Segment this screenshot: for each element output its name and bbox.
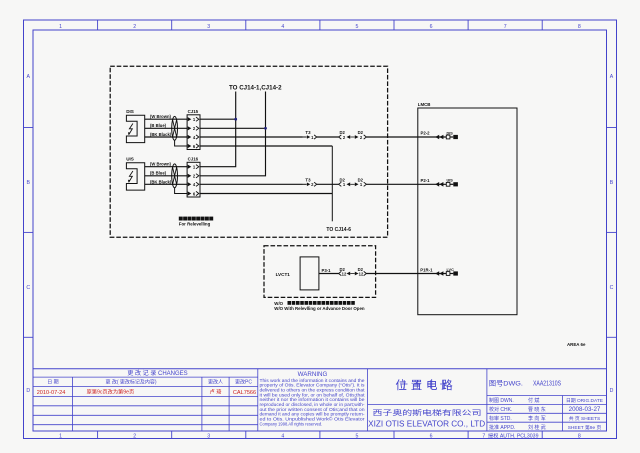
UIS wires (145, 166, 187, 168)
connector pair (339, 182, 342, 186)
svg-text:P1R-1: P1R-1 (420, 268, 433, 273)
svg-text:原第9c页改为第9e页: 原第9c页改为第9e页 (87, 388, 135, 396)
svg-text:2: 2 (133, 24, 136, 30)
lower dashed enclosure (LVCT) (264, 246, 376, 298)
svg-text:7: 7 (482, 433, 485, 439)
border frame inner (33, 30, 607, 431)
svg-text:CJ15: CJ15 (188, 109, 199, 114)
svg-text:(W Brown): (W Brown) (150, 161, 172, 166)
svg-text:12: 12 (359, 271, 364, 276)
svg-text:WARNING: WARNING (298, 371, 328, 378)
svg-text:C: C (610, 285, 614, 291)
svg-text:B: B (610, 180, 614, 186)
svg-text:7: 7 (504, 24, 507, 30)
wire to P2-2 (366, 136, 446, 138)
wire to P1R-1 (366, 273, 446, 275)
svg-text:XIZI OTIS ELEVATOR CO., LTD: XIZI OTIS ELEVATOR CO., LTD (368, 420, 485, 429)
svg-text:(B Blue): (B Blue) (150, 171, 167, 176)
changes table lines (33, 376, 258, 378)
svg-text:CJ16: CJ16 (188, 157, 199, 162)
svg-text:P2-1: P2-1 (421, 178, 431, 183)
junction dot A (234, 118, 237, 121)
svg-text:AREA 6e: AREA 6e (567, 342, 586, 347)
svg-text:8: 8 (578, 24, 581, 30)
svg-text:6: 6 (430, 433, 433, 439)
svg-text:2010-07-24: 2010-07-24 (37, 390, 66, 396)
svg-text:(B Blue): (B Blue) (150, 123, 167, 128)
svg-text:西子奥的斯电梯有限公司: 西子奥的斯电梯有限公司 (373, 408, 482, 417)
svg-text:6: 6 (430, 24, 433, 30)
svg-text:3: 3 (207, 433, 210, 439)
svg-text:(W Brown): (W Brown) (150, 114, 172, 119)
svg-text:UIS: UIS (126, 157, 134, 162)
board entry arrows (435, 135, 439, 140)
CJ15 pin wires (200, 118, 236, 120)
svg-text:A: A (26, 74, 30, 80)
connector pair (339, 135, 342, 139)
UIS shield wire (175, 188, 188, 194)
main dashed enclosure (110, 66, 387, 237)
junction dot B (264, 127, 267, 130)
svg-text:校对 CHK.: 校对 CHK. (489, 406, 512, 413)
svg-text:12: 12 (342, 271, 347, 276)
svg-text:D: D (610, 388, 614, 394)
ruler ticks (97, 20, 99, 30)
svg-text:LMCB: LMCB (418, 102, 431, 107)
svg-text:更改PC: 更改PC (235, 379, 252, 386)
DIS shield wire (175, 140, 188, 146)
svg-text:D: D (26, 388, 30, 394)
svg-text:卢 琦: 卢 琦 (210, 388, 222, 396)
svg-text:2008-03-27: 2008-03-27 (569, 406, 601, 413)
svg-text:4: 4 (281, 24, 284, 30)
svg-text:更改人: 更改人 (208, 379, 223, 386)
svg-text:(BK Black): (BK Black) (150, 132, 172, 137)
svg-text:共 页 SHEETS: 共 页 SHEETS (569, 415, 600, 422)
svg-text:5: 5 (356, 433, 359, 439)
svg-text:CAL7566: CAL7566 (233, 390, 256, 396)
svg-text:For Relevelling: For Relevelling (179, 222, 211, 227)
svg-text:4: 4 (281, 433, 284, 439)
svg-text:SHEET 第9e 页: SHEET 第9e 页 (568, 424, 602, 431)
svg-text:B: B (26, 180, 30, 186)
plug pin (303, 136, 307, 138)
svg-text:1: 1 (59, 433, 62, 439)
drawing title cell (368, 404, 487, 406)
svg-text:标审 STD.: 标审 STD. (489, 415, 512, 422)
node CJ14-6 drop wire (331, 146, 333, 221)
warning box (367, 369, 369, 431)
svg-text:XAA21310S: XAA21310S (533, 380, 561, 387)
title block top line (33, 368, 607, 370)
svg-text:日 期: 日 期 (47, 380, 58, 386)
approval table (487, 395, 607, 397)
svg-text:P3-1: P3-1 (322, 268, 332, 273)
svg-text:制图 DWN.: 制图 DWN. (489, 397, 514, 404)
plug pin (303, 183, 307, 185)
svg-text:A: A (610, 74, 614, 80)
svg-text:W/O With Relevlling or Advance: W/O With Relevlling or Advance Door Open (274, 306, 365, 311)
shielded cable symbol (172, 164, 178, 188)
svg-text:TO CJ14-1,CJ14-2: TO CJ14-1,CJ14-2 (229, 85, 282, 92)
svg-text:更 改 记 录 CHANGES: 更 改 记 录 CHANGES (127, 369, 187, 377)
svg-text:C: C (26, 285, 30, 291)
shielded cable symbol (172, 116, 178, 140)
svg-text:刘 桂 武: 刘 桂 武 (528, 424, 546, 431)
svg-text:DIS: DIS (126, 109, 134, 114)
svg-text:LVCT1: LVCT1 (276, 272, 291, 277)
svg-text:P2-2: P2-2 (421, 131, 431, 136)
node CJ14-2 riser (200, 92, 266, 176)
connector pair (339, 271, 342, 275)
svg-text:TO CJ14-6: TO CJ14-6 (326, 227, 351, 233)
board entry arrows (435, 271, 439, 276)
svg-text:Company 1998.All rights reserv: Company 1998.All rights reserved. (260, 421, 323, 426)
CJ16 pin wires (200, 183, 303, 185)
svg-text:授权 AUTH. PCL3039: 授权 AUTH. PCL3039 (488, 431, 539, 439)
note for relevelling (179, 217, 183, 221)
DIS wires (145, 118, 187, 120)
svg-text:付 斌: 付 斌 (528, 397, 539, 404)
svg-text:批准 APPD.: 批准 APPD. (489, 424, 515, 431)
node CJ14-1 riser (200, 92, 236, 167)
svg-text:(BK Black): (BK Black) (150, 179, 172, 184)
svg-text:3: 3 (207, 24, 210, 30)
svg-text:W/O: W/O (274, 301, 283, 306)
svg-text:8: 8 (578, 433, 581, 439)
board entry arrows (435, 182, 439, 187)
svg-text:1: 1 (59, 24, 62, 30)
svg-text:5: 5 (356, 24, 359, 30)
svg-text:李 向 军: 李 向 军 (528, 415, 546, 422)
svg-text:更 改( 更改标记及内容): 更 改( 更改标记及内容) (105, 379, 156, 386)
svg-text:日期 ORIG.DATE: 日期 ORIG.DATE (566, 398, 603, 404)
svg-text:图号DWG.: 图号DWG. (489, 379, 523, 387)
wire to P2-1 (366, 183, 446, 185)
svg-text:2: 2 (133, 433, 136, 439)
dwg number cell (486, 369, 488, 431)
svg-text:曹 晓 东: 曹 晓 东 (528, 406, 546, 413)
